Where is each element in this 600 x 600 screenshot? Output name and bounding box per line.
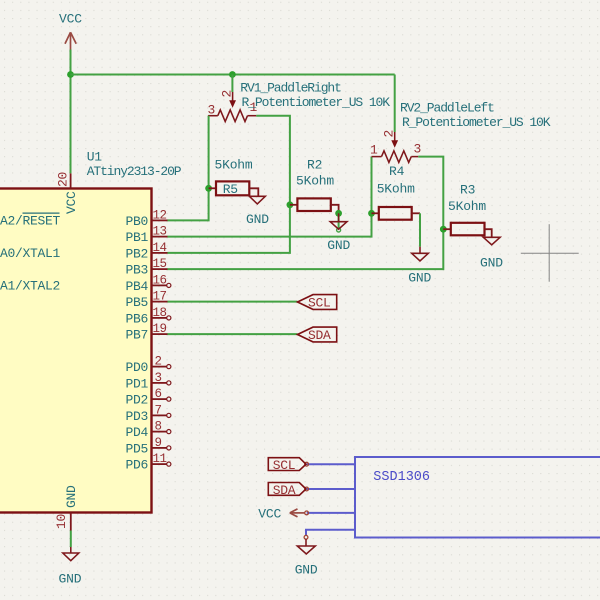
wire PB0 to R5: [168, 116, 209, 221]
VCC power symbol top: [65, 32, 76, 49]
svg-text:A1/XTAL2: A1/XTAL2: [0, 278, 60, 293]
svg-text:20: 20: [56, 172, 71, 187]
svg-text:PD6: PD6: [126, 458, 149, 473]
sheet SSD1306: [355, 457, 600, 538]
sheet pin wire GND: [306, 530, 355, 536]
svg-text:9: 9: [155, 436, 162, 450]
wire R2 gnd overlap: [338, 213, 340, 228]
wire VCC vertical: [70, 50, 72, 174]
global label SCL at sheet: [268, 458, 306, 473]
svg-text:GND: GND: [64, 485, 79, 508]
svg-text:PB6: PB6: [126, 311, 149, 326]
sheet pin end GND: [304, 535, 308, 539]
svg-text:5Kohm: 5Kohm: [296, 174, 334, 189]
wire RV1 wiper drop: [231, 75, 233, 93]
global label SCL: [298, 295, 337, 311]
pin PD1 unconnected: [152, 382, 167, 384]
svg-text:R_Potentiometer_US 10K: R_Potentiometer_US 10K: [402, 115, 551, 130]
svg-text:3: 3: [414, 142, 422, 157]
svg-text:SCL: SCL: [273, 458, 296, 473]
crosshair origin marker: [521, 224, 579, 282]
svg-text:14: 14: [153, 241, 167, 255]
pin PB7: [152, 333, 168, 335]
potentiometer RV1: [208, 92, 256, 122]
svg-text:R4: R4: [389, 164, 405, 179]
svg-text:R5: R5: [223, 182, 238, 197]
ground symbol R3: [483, 237, 500, 245]
svg-text:2: 2: [382, 130, 397, 138]
pin PB3: [152, 268, 168, 270]
pin 10 GND stub: [70, 513, 72, 531]
junction R4 left: [368, 210, 375, 217]
svg-text:8: 8: [155, 420, 162, 434]
svg-text:PB5: PB5: [126, 295, 149, 310]
svg-text:VCC: VCC: [64, 191, 79, 214]
svg-text:6: 6: [155, 387, 162, 401]
junction R2 left: [287, 201, 294, 208]
IC U1 body: [0, 189, 152, 513]
pin 20 VCC stub: [70, 173, 72, 188]
sheet pin wire VCC: [307, 512, 355, 514]
pin PB4 unconnected: [152, 284, 167, 286]
pin PD4 unconnected: [152, 431, 167, 433]
svg-text:U1: U1: [87, 150, 103, 165]
svg-text:GND: GND: [59, 572, 82, 587]
svg-text:GND: GND: [295, 563, 318, 578]
global label SDA at sheet: [268, 483, 306, 498]
pin PD6 unconnected: [152, 463, 167, 465]
resistor R3: [443, 223, 491, 238]
junction R3 left: [440, 226, 447, 233]
sheet pin wire SCL: [307, 463, 355, 465]
junction R5: [205, 185, 212, 192]
svg-text:5Kohm: 5Kohm: [448, 199, 486, 214]
svg-text:R2: R2: [307, 158, 322, 173]
svg-text:PD4: PD4: [126, 425, 149, 440]
svg-text:PD2: PD2: [126, 393, 149, 408]
svg-text:SSD1306: SSD1306: [373, 470, 430, 485]
svg-text:11: 11: [153, 452, 167, 466]
svg-text:5Kohm: 5Kohm: [215, 158, 253, 173]
svg-text:16: 16: [153, 273, 167, 287]
pin PD5 unconnected: [152, 447, 167, 449]
sheet pin wire SDA: [307, 488, 355, 490]
svg-text:VCC: VCC: [59, 12, 82, 27]
pin PB0: [152, 219, 168, 221]
wire RV2 pin3 down to PB3: [168, 157, 444, 270]
svg-text:GND: GND: [327, 238, 350, 253]
svg-text:13: 13: [153, 225, 167, 239]
svg-text:19: 19: [153, 322, 167, 336]
svg-text:3: 3: [208, 103, 216, 118]
svg-text:7: 7: [155, 403, 162, 417]
ground symbol R2: [330, 213, 347, 229]
wire PB5 to SCL: [168, 301, 298, 303]
svg-text:15: 15: [153, 257, 167, 271]
svg-text:R3: R3: [460, 182, 475, 197]
sheet pin end SDA: [305, 487, 309, 491]
svg-text:PB0: PB0: [126, 214, 149, 229]
ground symbol at sheet: [297, 539, 315, 554]
wire pin10 to gnd: [70, 531, 72, 548]
resistor R4: [372, 207, 421, 220]
wire end circle R2 gnd: [337, 228, 341, 232]
svg-text:5Kohm: 5Kohm: [377, 182, 415, 197]
svg-text:A0/XTAL1: A0/XTAL1: [0, 246, 61, 261]
svg-text:R_Potentiometer_US 10K: R_Potentiometer_US 10K: [242, 95, 391, 110]
right side pins PB0..PB7, PD0..PD6: [126, 208, 171, 472]
junction VCC: [67, 71, 74, 78]
svg-text:SDA: SDA: [273, 483, 296, 498]
svg-text:17: 17: [153, 290, 167, 304]
pin PD3 unconnected: [152, 414, 167, 416]
svg-text:PD0: PD0: [126, 360, 149, 375]
pin PB1: [152, 236, 168, 238]
svg-text:10: 10: [54, 514, 69, 529]
svg-text:2: 2: [220, 90, 235, 98]
pin PB5: [152, 301, 168, 303]
pin PD0 unconnected: [152, 366, 167, 368]
svg-text:PD5: PD5: [126, 441, 149, 456]
svg-text:18: 18: [153, 306, 167, 320]
wire R4 to gnd: [419, 213, 421, 246]
svg-text:PB4: PB4: [126, 279, 149, 294]
svg-text:GND: GND: [246, 212, 269, 227]
ground symbol R4: [412, 247, 429, 261]
svg-text:GND: GND: [408, 271, 431, 286]
pin PB6 unconnected: [152, 317, 167, 319]
svg-text:1: 1: [370, 143, 378, 158]
wire top down to RV2 wiper: [394, 75, 396, 133]
resistor R5: [209, 181, 259, 197]
svg-text:GND: GND: [480, 256, 503, 271]
pin PD2 unconnected: [152, 398, 167, 400]
svg-text:RV2_PaddleLeft: RV2_PaddleLeft: [400, 100, 494, 115]
svg-text:2: 2: [155, 355, 162, 369]
wire VCC horizontal top: [71, 74, 395, 76]
svg-text:VCC: VCC: [258, 506, 281, 521]
wire RV1 pin1 down to PB2: [168, 116, 290, 253]
svg-text:A2/RESET: A2/RESET: [0, 213, 61, 228]
svg-text:PB1: PB1: [126, 230, 149, 245]
pin PB2: [152, 252, 168, 254]
VCC power symbol at sheet: [290, 509, 305, 517]
svg-text:RV1_PaddleRight: RV1_PaddleRight: [240, 81, 341, 96]
left pin name PA2/RESET: [0, 213, 61, 228]
svg-text:PB2: PB2: [126, 246, 149, 261]
svg-text:PD1: PD1: [126, 376, 149, 391]
potentiometer RV2: [372, 132, 419, 162]
svg-text:PD3: PD3: [126, 409, 149, 424]
wire PB1 to RV2 pin1: [168, 157, 372, 237]
svg-text:PB7: PB7: [126, 328, 149, 343]
svg-text:12: 12: [153, 208, 167, 222]
svg-text:3: 3: [155, 371, 162, 385]
junction RV1 wiper: [229, 71, 236, 78]
svg-text:PB3: PB3: [126, 263, 149, 278]
global label SDA: [298, 327, 337, 343]
svg-text:SCL: SCL: [308, 296, 331, 311]
svg-text:ATtiny2313-20P: ATtiny2313-20P: [87, 164, 182, 179]
sheet pin end VCC: [305, 511, 309, 515]
ground symbol R5: [249, 196, 265, 204]
ground symbol U1: [63, 547, 79, 561]
resistor R2: [290, 198, 339, 213]
junction R2 gnd: [335, 210, 342, 217]
wire PB7 to SDA: [168, 333, 298, 335]
svg-text:SDA: SDA: [308, 328, 331, 343]
sheet pin end SCL: [305, 462, 309, 466]
